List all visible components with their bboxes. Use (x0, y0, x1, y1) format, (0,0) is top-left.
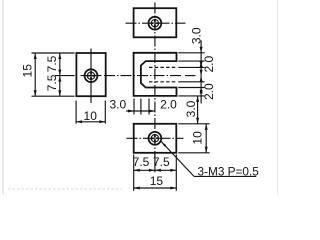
left dim extension line bottom (32, 95, 75, 97)
svg-text:2.0: 2.0 (202, 83, 216, 100)
front view outline with slot (C shape) (134, 53, 177, 96)
dimension line 10 (bottom view right) (205, 124, 207, 153)
top view threaded hole outer circle (149, 17, 162, 30)
dimension line 15 (left) (34, 53, 36, 96)
svg-text:15: 15 (150, 174, 164, 188)
right chain extension lines (178, 52, 204, 54)
svg-text:7.5: 7.5 (45, 55, 59, 72)
top view horizontal centerline (126, 22, 186, 24)
gap dimension 3.0 (front bottom to bottom view top) (197, 96, 199, 124)
dimension line 7.5/7.5 (bottom) (134, 169, 177, 171)
bottom view lower extension lines (133, 155, 135, 191)
svg-text:7.5: 7.5 (45, 74, 59, 91)
front view hidden line lower (149, 81, 177, 83)
top view threaded hole inner circle (151, 20, 158, 27)
dimension line 15 (bottom) (134, 187, 177, 189)
bottom view horizontal centerline (127, 137, 184, 139)
left side view rectangle (76, 53, 105, 96)
bottom view threaded hole inner circle (151, 135, 158, 142)
bottom view right dim extension lines (178, 123, 209, 125)
dimension line 7.5/7.5 (left) (59, 53, 61, 96)
dimension line 10 (left view bottom) (76, 121, 105, 123)
front bottom dim extension lines (133, 99, 135, 115)
svg-text:2.0: 2.0 (160, 98, 177, 112)
shared horizontal centerline left view to front view (81, 75, 102, 77)
left dim extension line top (32, 52, 75, 54)
svg-text:2.0: 2.0 (202, 56, 216, 73)
main vertical centerline (through all three views) (154, 3, 156, 158)
front view hidden line upper (149, 66, 177, 68)
svg-text:3.0: 3.0 (109, 98, 126, 112)
svg-text:3.0: 3.0 (190, 27, 204, 44)
right chain dimension line (200, 41, 202, 104)
left view 10 dim extension lines (75, 101, 77, 124)
left view threaded hole inner circle (87, 72, 94, 79)
left view hole vertical centerline (90, 49, 92, 104)
front bottom dimension line 3.0/2.0 (126, 110, 155, 112)
svg-text:7.5: 7.5 (153, 155, 170, 169)
bottom view threaded hole outer circle (149, 132, 162, 145)
svg-text:10: 10 (84, 109, 98, 123)
left dim extension line middle (55, 75, 75, 77)
bottom view rectangle (134, 124, 177, 153)
faint right border (277, 0, 279, 195)
top view rectangle (134, 8, 177, 37)
svg-text:3-M3 P=0.5: 3-M3 P=0.5 (198, 164, 260, 178)
svg-text:15: 15 (21, 64, 35, 78)
svg-text:7.5: 7.5 (133, 155, 150, 169)
svg-text:3.0: 3.0 (184, 100, 198, 117)
svg-text:10: 10 (191, 131, 205, 145)
leader line for 3-M3 P=0.5 (161, 142, 194, 177)
faint artifact line bottom left (8, 188, 122, 190)
left view threaded hole outer circle (85, 69, 98, 82)
faint left border (2, 0, 4, 195)
